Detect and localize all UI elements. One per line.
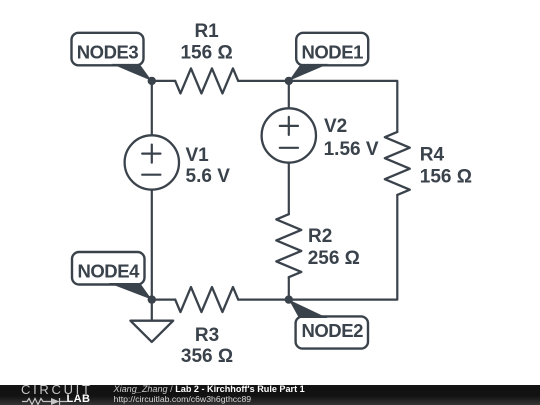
svg-text:1.56 V: 1.56 V [324,139,379,160]
wire top-left (NODE3 to R1) [152,80,175,82]
footer url text [114,395,252,405]
wire left vertical top (NODE3 to V1) [151,81,153,135]
wire ground stem [151,300,153,321]
voltage source V1 [125,135,179,189]
label R4 value [420,145,472,188]
node NODE1 callout [289,33,368,81]
svg-text:5.6 V: 5.6 V [186,166,231,187]
junction dot NODE3 [148,77,156,85]
svg-text:NODE4: NODE4 [77,261,140,282]
label R1 value [180,21,232,64]
label V1 value [186,145,231,187]
wire middle vertical bottom (R2 to NODE2) [288,277,290,299]
label R3 value [181,325,233,367]
resistor R3 [175,287,238,312]
wire left vertical bottom (V1 to NODE4) [151,190,153,300]
resistor R2 [276,214,301,277]
footer logo symbols (resistor + diode) [22,397,68,405]
svg-text:NODE2: NODE2 [301,320,363,341]
svg-text:V1: V1 [186,145,210,166]
svg-text:NODE3: NODE3 [77,41,139,62]
junction dot NODE2 [285,295,293,303]
wire right-bottom (R4 to bottom corner) [289,195,398,300]
svg-text:256 Ω: 256 Ω [308,248,360,269]
label V2 value [324,116,379,160]
svg-text:R2: R2 [308,226,332,247]
junction dot NODE4 [148,295,156,303]
wire top-middle (R1 to NODE1) [238,80,289,82]
svg-text:156 Ω: 156 Ω [420,167,472,188]
node NODE3 callout [72,33,152,81]
wire middle vertical top (NODE1 to V2) [288,81,290,108]
footer logo LAB [67,395,91,404]
footer title text [114,385,305,395]
svg-text:V2: V2 [324,116,347,137]
wire bottom-left (NODE4 to R3) [152,299,175,301]
wire top-right (NODE1 to right corner) [289,81,398,132]
junction dot NODE1 [285,77,293,85]
node NODE4 callout [72,252,152,300]
svg-text:156 Ω: 156 Ω [180,43,232,64]
resistor R4 [385,132,410,195]
node NODE2 callout [289,300,368,349]
svg-text:NODE1: NODE1 [301,41,363,62]
svg-text:R3: R3 [195,325,219,346]
voltage source V2 [262,108,316,162]
svg-text:356 Ω: 356 Ω [181,346,233,367]
wire middle vertical (V2 to R2) [288,163,290,214]
svg-text:R1: R1 [194,21,219,42]
footer logo CIRCUIT [21,385,93,395]
wire bottom-middle (R3 to NODE2) [238,299,289,301]
resistor R1 [175,68,238,93]
ground [130,321,173,342]
footer bar [0,385,540,405]
svg-text:R4: R4 [420,145,445,166]
label R2 value [308,226,360,269]
